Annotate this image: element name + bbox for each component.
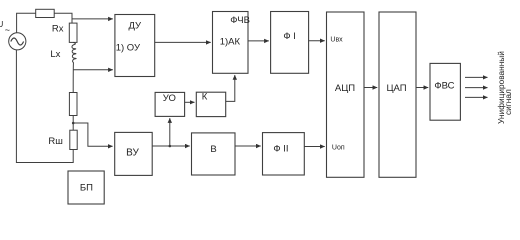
svg-text:U: U: [0, 20, 4, 29]
svg-text:В: В: [210, 144, 216, 155]
svg-text:Ф I: Ф I: [283, 31, 296, 42]
svg-text:Ф II: Ф II: [273, 144, 288, 155]
svg-text:ВУ: ВУ: [126, 147, 139, 158]
svg-text:1)АК: 1)АК: [220, 36, 241, 47]
svg-text:~: ~: [5, 25, 10, 35]
svg-text:Lx: Lx: [50, 49, 60, 60]
svg-text:Rш: Rш: [48, 136, 62, 147]
svg-text:ФЧВ: ФЧВ: [230, 15, 250, 26]
svg-text:ДУ: ДУ: [129, 20, 143, 31]
svg-text:БП: БП: [80, 182, 93, 193]
svg-text:ЦАП: ЦАП: [386, 83, 406, 94]
svg-text:ФВС: ФВС: [434, 81, 454, 92]
svg-text:К: К: [202, 92, 208, 103]
svg-text:АЦП: АЦП: [335, 83, 355, 94]
svg-text:УО: УО: [163, 93, 176, 104]
svg-text:Rx: Rx: [52, 23, 64, 34]
svg-text:Uвх: Uвх: [330, 37, 343, 44]
svg-text:Uоп: Uоп: [332, 144, 345, 151]
svg-text:сигнал: сигнал: [503, 89, 513, 115]
svg-text:1) ОУ: 1) ОУ: [116, 42, 141, 53]
